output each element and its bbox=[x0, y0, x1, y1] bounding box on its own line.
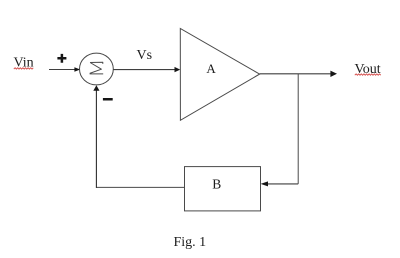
wire feedback tap down from output bbox=[297, 74, 299, 184]
spellcheck squiggle under Vout bbox=[355, 74, 381, 75]
wire amplifier output bbox=[260, 73, 332, 75]
arrowhead into amplifier input bbox=[175, 67, 181, 72]
wire block B output to the left bbox=[96, 186, 185, 188]
arrowhead into block B bbox=[261, 181, 268, 186]
arrowhead into summing junction left bbox=[74, 67, 80, 72]
sigma symbol inside summing junction bbox=[90, 62, 104, 74]
block B rectangle bbox=[185, 167, 261, 211]
svg-text:Fig. 1: Fig. 1 bbox=[174, 235, 207, 250]
wire Vin to summing junction bbox=[49, 69, 75, 71]
wire feedback up to summing junction bbox=[95, 91, 97, 188]
plus sign at summing input bbox=[57, 54, 66, 63]
arrowhead into summing junction bottom bbox=[93, 85, 99, 91]
wire summing junction to amplifier bbox=[113, 69, 175, 71]
arrowhead at Vout bbox=[330, 71, 337, 77]
svg-text:B: B bbox=[212, 177, 221, 192]
svg-text:Vs: Vs bbox=[137, 48, 153, 63]
summing junction S1 bbox=[80, 53, 114, 85]
op-amp A triangle bbox=[180, 29, 259, 121]
svg-text:A: A bbox=[206, 61, 216, 76]
wire into block B right side bbox=[267, 183, 299, 185]
minus sign at feedback input bbox=[103, 98, 113, 101]
spellcheck squiggle under Vin bbox=[14, 68, 33, 69]
